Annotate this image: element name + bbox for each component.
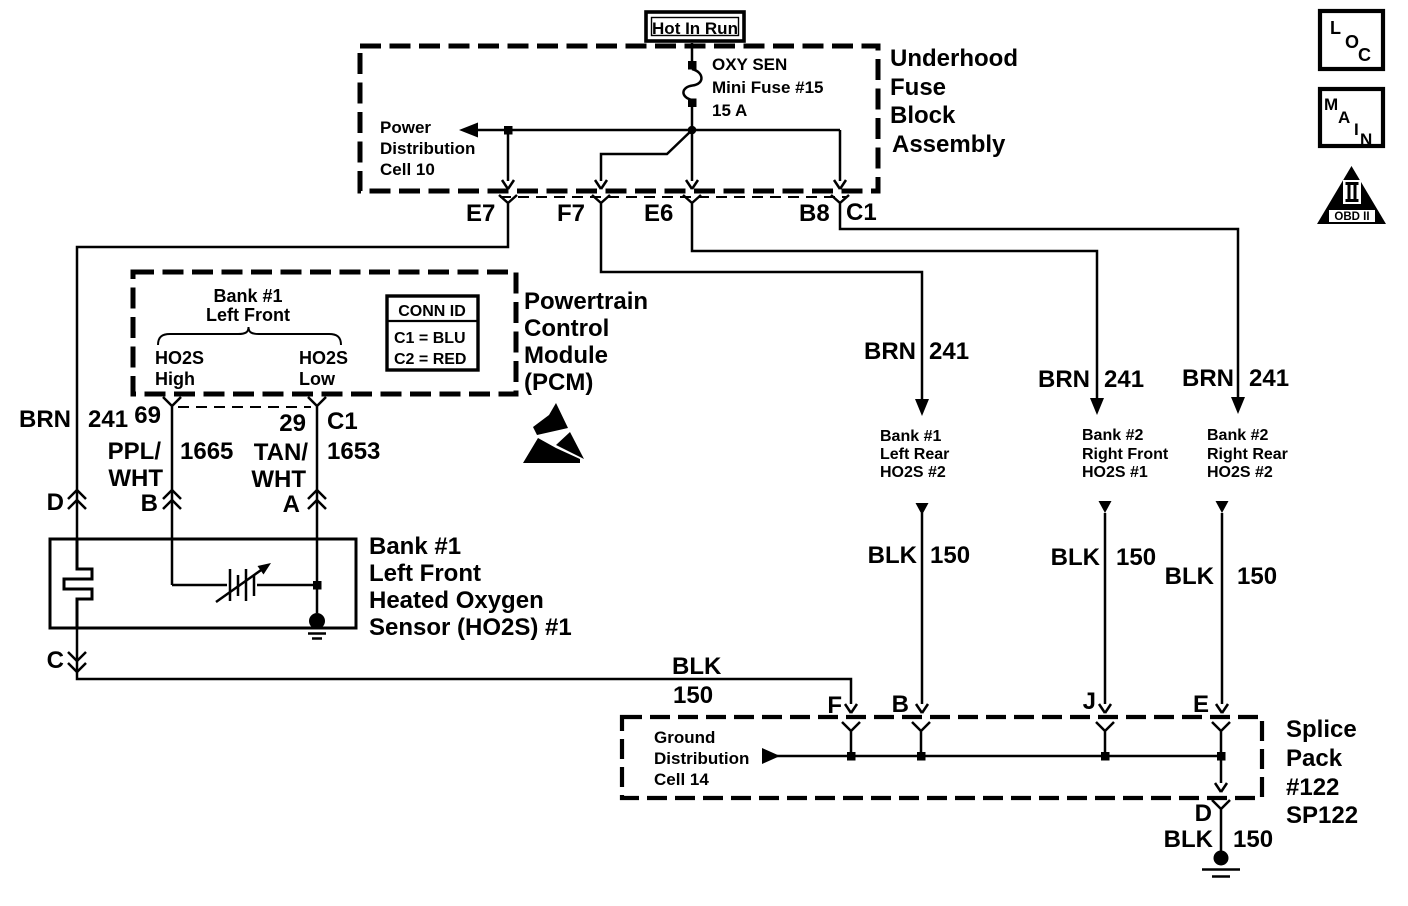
svg-text:Hot In Run: Hot In Run bbox=[652, 19, 738, 38]
svg-text:OBD II: OBD II bbox=[1334, 211, 1369, 223]
wire: diagonal feed to pin F7 with arrowhead bbox=[595, 130, 692, 189]
off-page target Bank #2 Right Front HO2S #1 bbox=[1082, 427, 1169, 481]
svg-text:BLK: BLK bbox=[672, 653, 722, 680]
off-page target Bank #1 Left Rear HO2S #2 bbox=[880, 428, 949, 481]
label HO2S High bbox=[155, 348, 204, 389]
wire: drop to pin E7 with arrowhead bbox=[502, 134, 514, 189]
wire: drop to pin B8 with arrowhead bbox=[834, 130, 846, 189]
inline connector pin D bbox=[47, 489, 86, 516]
splice pack SP122 dashed outline bbox=[622, 717, 1262, 798]
svg-text:BRN: BRN bbox=[864, 338, 916, 365]
svg-text:C1 = BLU: C1 = BLU bbox=[394, 330, 466, 347]
svg-text:Underhood: Underhood bbox=[890, 45, 1018, 72]
splice pack pin F bbox=[827, 692, 860, 756]
label Underhood Fuse Block Assembly bbox=[890, 45, 1018, 158]
svg-text:1665: 1665 bbox=[180, 438, 233, 465]
svg-text:I: I bbox=[1354, 120, 1359, 139]
underhood fuse block assembly dashed outline bbox=[360, 46, 878, 191]
wire: net 1653 TAN/WHT pin 29 to sensor pin A bbox=[316, 416, 319, 613]
node: splice J bbox=[1101, 752, 1110, 761]
svg-text:C2 = RED: C2 = RED bbox=[394, 351, 466, 368]
svg-text:150: 150 bbox=[673, 682, 713, 709]
svg-text:Block: Block bbox=[890, 102, 956, 129]
svg-text:Bank #2: Bank #2 bbox=[1082, 427, 1143, 444]
svg-text:Assembly: Assembly bbox=[892, 131, 1006, 158]
svg-text:69: 69 bbox=[134, 402, 161, 429]
wire label BRN 241 (branch 3) bbox=[1182, 365, 1289, 392]
brace over HO2S High / Low bbox=[158, 327, 341, 345]
svg-text:150: 150 bbox=[1233, 826, 1273, 853]
wire label TAN/WHT 1653 bbox=[251, 438, 380, 493]
svg-text:241: 241 bbox=[1249, 365, 1289, 392]
svg-text:Fuse: Fuse bbox=[890, 74, 946, 101]
svg-text:N: N bbox=[1360, 130, 1372, 149]
svg-text:#122: #122 bbox=[1286, 774, 1339, 801]
svg-text:BLK: BLK bbox=[1051, 544, 1101, 571]
svg-text:29: 29 bbox=[279, 410, 306, 437]
svg-text:C: C bbox=[1358, 45, 1371, 65]
svg-text:HO2S #2: HO2S #2 bbox=[880, 464, 946, 481]
svg-text:Distribution: Distribution bbox=[380, 139, 475, 158]
wire label BRN 241 (branch 2) bbox=[1038, 366, 1144, 393]
wire: net 241 BRN from E7 to HO2S heater (pin D) bbox=[77, 212, 508, 539]
wire: net 241 BRN from E6 to Bank #2 Right Front HO2S #1 bbox=[692, 212, 1104, 415]
svg-text:Powertrain: Powertrain bbox=[524, 288, 648, 315]
splice pack pin B bbox=[892, 691, 930, 756]
svg-text:Cell 10: Cell 10 bbox=[380, 160, 435, 179]
svg-text:Splice: Splice bbox=[1286, 716, 1357, 743]
CONN ID table bbox=[387, 296, 478, 370]
svg-text:BRN: BRN bbox=[19, 406, 71, 433]
reference icon MAIN bbox=[1320, 89, 1383, 149]
inline connector pin B bbox=[141, 490, 181, 517]
wire label PPL/WHT 1665 bbox=[108, 438, 234, 492]
wire: net 241 BRN from B8 to Bank #2 Right Rear HO2S #2 bbox=[840, 212, 1245, 414]
wire: drop to pin E6 with arrowhead bbox=[686, 134, 698, 189]
svg-text:Ground: Ground bbox=[654, 728, 715, 747]
PCM pin 69 bbox=[134, 397, 181, 429]
svg-text:Cell 14: Cell 14 bbox=[654, 770, 709, 789]
splice pack pin D bbox=[1195, 800, 1230, 852]
svg-text:Bank #1: Bank #1 bbox=[213, 286, 282, 306]
wire label BLK 150 (branch 3) bbox=[1165, 563, 1277, 590]
wire: fuse output bus bbox=[477, 129, 840, 132]
ground G122 bbox=[1202, 851, 1240, 877]
arrow to Power Distribution Cell 10 bbox=[459, 123, 478, 138]
O2 sense element (variable voltage) bbox=[172, 563, 313, 602]
wire: net 150 BLK from Bank #2 Right Rear HO2S #2 to splice pin E bbox=[1216, 501, 1229, 713]
svg-text:(PCM): (PCM) bbox=[524, 369, 593, 396]
svg-text:Bank #1: Bank #1 bbox=[880, 428, 941, 445]
sensor case ground bbox=[308, 613, 326, 639]
wire: Hot In Run to fuse F15 bbox=[691, 43, 694, 62]
svg-text:Low: Low bbox=[299, 369, 336, 389]
node: splice B bbox=[917, 752, 926, 761]
svg-text:PPL/: PPL/ bbox=[108, 438, 162, 465]
svg-text:J: J bbox=[1083, 688, 1096, 715]
svg-text:B: B bbox=[141, 490, 158, 517]
label Splice Pack #122 SP122 bbox=[1286, 716, 1358, 829]
label HO2S Low bbox=[299, 348, 348, 389]
wire label BLK 150 (branch 1) bbox=[868, 542, 970, 569]
wire: splice bus to pin D with arrowhead bbox=[1215, 756, 1227, 792]
svg-text:O: O bbox=[1345, 32, 1359, 52]
wire label BRN 241 (branch 1) bbox=[864, 338, 969, 365]
svg-text:1653: 1653 bbox=[327, 438, 380, 465]
node: splice E/D bbox=[1217, 752, 1226, 761]
svg-text:HO2S #1: HO2S #1 bbox=[1082, 464, 1148, 481]
svg-text:D: D bbox=[1195, 800, 1212, 827]
svg-text:150: 150 bbox=[930, 542, 970, 569]
svg-text:E: E bbox=[1193, 691, 1209, 718]
wire: net 150 BLK from Bank #1 Left Rear HO2S #2 to splice pin B bbox=[916, 503, 929, 713]
svg-text:Power: Power bbox=[380, 118, 431, 137]
wire: net 241 BRN from F7 to Bank #1 Left Rear HO2S #2 bbox=[601, 212, 929, 416]
label Ground Distribution Cell 14 bbox=[654, 728, 749, 789]
power feed box "Hot In Run" bbox=[646, 12, 744, 41]
wire: net 150 BLK from Bank #2 Right Front HO2S #1 to splice pin J bbox=[1099, 501, 1112, 713]
svg-text:Bank #2: Bank #2 bbox=[1207, 427, 1268, 444]
svg-text:150: 150 bbox=[1116, 544, 1156, 571]
svg-text:TAN/: TAN/ bbox=[254, 439, 309, 466]
label Bank #1 Left Front (PCM internal) bbox=[206, 286, 290, 325]
fuse F15 OXY SEN Mini Fuse #15 bbox=[683, 61, 701, 107]
svg-text:D: D bbox=[47, 489, 64, 516]
ESD sensitivity symbol bbox=[523, 403, 584, 463]
wire label BLK 150 (branch 2) bbox=[1051, 544, 1156, 571]
label Power Distribution Cell 10 bbox=[380, 118, 475, 179]
svg-text:Pack: Pack bbox=[1286, 745, 1343, 772]
svg-text:Control: Control bbox=[524, 315, 609, 342]
connector pin B8 / label C1 bbox=[799, 195, 877, 227]
splice pack pin J bbox=[1083, 688, 1114, 756]
svg-text:Distribution: Distribution bbox=[654, 749, 749, 768]
svg-text:Left Front: Left Front bbox=[206, 305, 290, 325]
wire label BRN 241 (heater feed) bbox=[19, 406, 128, 433]
svg-text:15 A: 15 A bbox=[712, 101, 747, 120]
svg-text:HO2S: HO2S bbox=[299, 348, 348, 368]
svg-text:Right Front: Right Front bbox=[1082, 446, 1169, 463]
svg-text:Right Rear: Right Rear bbox=[1207, 446, 1288, 463]
node: sensor internal junction bbox=[313, 581, 322, 590]
svg-text:BRN: BRN bbox=[1182, 365, 1234, 392]
svg-text:150: 150 bbox=[1237, 563, 1277, 590]
svg-text:SP122: SP122 bbox=[1286, 802, 1358, 829]
svg-text:BLK: BLK bbox=[1165, 563, 1215, 590]
svg-text:BLK: BLK bbox=[868, 542, 918, 569]
wire: fuse to junction node bbox=[691, 107, 694, 132]
reference icon LOC bbox=[1320, 11, 1383, 69]
off-page target Bank #2 Right Rear HO2S #2 bbox=[1207, 427, 1288, 481]
svg-text:Bank #1: Bank #1 bbox=[369, 533, 461, 560]
wire label BLK 150 (ground lead) bbox=[1164, 826, 1273, 853]
svg-text:BLK: BLK bbox=[1164, 826, 1214, 853]
HO2S sensor box bbox=[50, 539, 356, 628]
svg-text:F: F bbox=[827, 692, 842, 719]
svg-text:HO2S: HO2S bbox=[155, 348, 204, 368]
splice bus with arrow to Ground Distribution bbox=[762, 748, 1221, 764]
node: fuse output junction bbox=[688, 126, 697, 135]
reference icon OBD II triangle bbox=[1317, 166, 1386, 224]
svg-text:A: A bbox=[1338, 108, 1350, 127]
svg-text:C1: C1 bbox=[846, 199, 877, 226]
svg-text:M: M bbox=[1324, 95, 1338, 114]
svg-text:241: 241 bbox=[88, 406, 128, 433]
label Powertrain Control Module (PCM) bbox=[524, 288, 648, 396]
inline connector pin A bbox=[283, 490, 326, 518]
heater element (HO2S heater) bbox=[64, 539, 92, 628]
PCM pin 29 / connector C1 bbox=[279, 397, 357, 437]
connector pin E6 bbox=[644, 195, 701, 227]
svg-text:E7: E7 bbox=[466, 200, 495, 227]
svg-text:Module: Module bbox=[524, 342, 608, 369]
wire: net 150 BLK sensor pin C to splice pack pin F bbox=[77, 628, 857, 713]
svg-text:C: C bbox=[47, 647, 64, 674]
svg-text:B8: B8 bbox=[799, 200, 830, 227]
connector C1 dashed pin strip bbox=[500, 196, 846, 198]
PCM connector dashed pin strip bbox=[178, 406, 311, 408]
svg-text:WHT: WHT bbox=[108, 465, 163, 492]
label Bank #1 Left Front Heated Oxygen Sensor (HO2S) #1 bbox=[369, 533, 572, 641]
fuse value label bbox=[712, 55, 823, 120]
svg-text:WHT: WHT bbox=[251, 466, 306, 493]
svg-text:Heated Oxygen: Heated Oxygen bbox=[369, 587, 544, 614]
svg-text:High: High bbox=[155, 369, 195, 389]
svg-text:BRN: BRN bbox=[1038, 366, 1090, 393]
svg-text:241: 241 bbox=[929, 338, 969, 365]
wire label BLK 150 (sensor ground) bbox=[672, 653, 722, 709]
svg-text:F7: F7 bbox=[557, 200, 585, 227]
svg-text:B: B bbox=[892, 691, 909, 718]
svg-text:CONN ID: CONN ID bbox=[398, 303, 466, 320]
svg-text:HO2S #2: HO2S #2 bbox=[1207, 464, 1273, 481]
svg-text:L: L bbox=[1330, 18, 1341, 38]
svg-text:E6: E6 bbox=[644, 200, 673, 227]
svg-text:241: 241 bbox=[1104, 366, 1144, 393]
splice pack pin E bbox=[1193, 691, 1230, 756]
svg-text:Left Front: Left Front bbox=[369, 560, 481, 587]
svg-text:Sensor (HO2S) #1: Sensor (HO2S) #1 bbox=[369, 614, 572, 641]
connector pin F7 bbox=[557, 195, 610, 227]
inline connector pin C bbox=[47, 647, 86, 674]
svg-text:A: A bbox=[283, 491, 300, 518]
svg-text:Mini Fuse #15: Mini Fuse #15 bbox=[712, 78, 823, 97]
node: E7 tap (square) bbox=[504, 126, 513, 135]
node: splice F bbox=[847, 752, 856, 761]
PCM dashed outline bbox=[133, 272, 516, 394]
connector pin E7 bbox=[466, 195, 517, 227]
svg-text:C1: C1 bbox=[327, 408, 358, 435]
svg-text:Left Rear: Left Rear bbox=[880, 446, 949, 463]
svg-text:OXY SEN: OXY SEN bbox=[712, 55, 787, 74]
wire: net 1665 PPL/WHT pin 69 to sensor pin B bbox=[171, 416, 174, 585]
